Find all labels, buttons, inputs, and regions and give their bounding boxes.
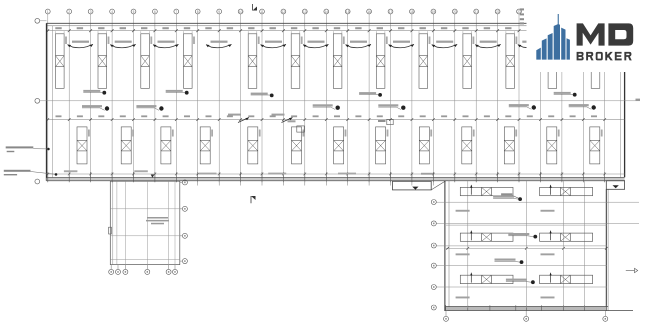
small slope arrows mid band [238,118,249,123]
window V7 [334,127,344,164]
svg-text:2: 2 [68,10,70,14]
right wing step (top-right ramp) [606,181,624,190]
lintel internal grey bar row1 [501,193,512,195]
left bubble B [35,98,40,103]
vent leader at x=489 [475,44,501,47]
right wing bottom wall [446,307,608,310]
vent leader at x=166 [153,44,179,47]
window V10 [462,127,472,164]
dim ticks under wing bottom (x 185..440) [198,181,434,186]
svg-text:23: 23 [517,10,521,14]
lintel row 2 left [460,233,513,241]
vent leader at x=359 [346,44,372,47]
window V6 [292,127,302,164]
window V8 [376,127,386,164]
window W10 [463,34,472,89]
right wing left bubbles [431,200,436,311]
window W3 [141,34,150,89]
logo tower with spire [554,24,560,60]
right wall [624,23,626,177]
lintel row 3 left [460,275,513,283]
vent leader at x=220 [206,44,232,47]
window V11 [504,127,514,164]
left bubble A [35,18,40,184]
extension bottom bubbles [109,265,178,275]
window V13 [590,127,600,164]
svg-text:16: 16 [367,10,371,14]
svg-text:9: 9 [218,10,220,14]
ramp box left of right wing [393,181,432,190]
window W8 [376,34,385,89]
dim stubs above row-1 windows [56,31,515,34]
window V3 [161,127,171,164]
svg-text:6: 6 [154,10,156,14]
window V1 [77,127,87,164]
extension left door box [109,227,112,234]
bottom wall ticks [47,172,607,182]
svg-text:1: 1 [47,10,49,14]
section mark top [252,4,254,11]
left wall [46,23,48,180]
vent leader at x=402 [389,44,415,47]
lintel row 2 right [540,233,593,241]
window W4 [184,34,193,89]
section mark bottom [250,196,252,203]
svg-text:22: 22 [496,10,500,14]
bottom wall of main wing [47,177,625,179]
window V5 [248,127,258,164]
left annotation text 2 [4,170,31,176]
svg-text:19: 19 [432,10,436,14]
vent leader at x=124 [110,44,136,47]
logo white background [527,0,654,72]
window W1 [56,34,65,89]
svg-text:20: 20 [453,10,457,14]
window W9 [419,34,428,89]
logo building bar 6 [567,38,570,59]
svg-text:13: 13 [303,10,307,14]
right side marker [626,270,635,272]
svg-text:4: 4 [111,10,113,14]
top grid bubbles 1..23 [45,9,521,14]
middle dimension line [47,119,625,121]
right wing dim ticks y=248.3 [446,247,607,250]
lintel row 1 right [540,187,593,195]
top dimension line [47,30,625,32]
right wing small labels [456,210,555,299]
logo building bar 5 [561,28,565,60]
horizontal grid line B [40,100,640,102]
svg-text:12: 12 [282,10,286,14]
right wing bottom bubbles [444,311,608,321]
window V2 [121,127,131,164]
window W6 [291,34,300,89]
logo building bar 1 [536,48,541,60]
right wing horizontal grid lines [437,202,640,287]
vent leader at x=445 [432,44,458,47]
left annotation text 1 [6,146,34,152]
window V9 [419,127,429,164]
svg-text:21: 21 [474,10,478,14]
right wing left wall [444,181,446,311]
window W13 [591,34,600,89]
right wing vertical grid lines [468,181,585,308]
window W7 [333,34,342,89]
svg-text:17: 17 [389,10,393,14]
svg-text:11: 11 [260,10,264,14]
small flag above extension [151,175,155,178]
top wall of main wing [47,22,625,24]
svg-text:14: 14 [325,10,329,14]
svg-text:18: 18 [410,10,414,14]
0.00 level box [297,126,304,132]
right wing right wall [605,189,607,311]
svg-text:3: 3 [90,10,92,14]
extension internal grid [110,181,180,264]
tiny level text stack top right [520,8,524,24]
vent leader at x=531 [518,44,544,47]
right wing leader dots [518,197,522,201]
window W2 [98,34,107,89]
leader dots y~93 [102,91,106,95]
logo building bar 2 [542,38,547,59]
window W11 [506,34,515,89]
logo BROKER text [577,52,632,61]
vent leader at x=81 [68,44,94,47]
extension right bubbles [180,180,188,264]
logo building bar 3 [548,33,553,60]
window V4 [200,127,210,164]
window V12 [547,127,557,164]
svg-text:10: 10 [239,10,243,14]
svg-text:7: 7 [175,10,177,14]
left bubble C [35,179,40,184]
svg-text:15: 15 [346,10,350,14]
svg-text:8: 8 [197,10,199,14]
lintel row 3 right [540,275,593,283]
left extension outline [110,181,180,264]
window W5 [248,34,257,89]
extension centre text [146,217,169,224]
window W12 [548,34,557,89]
circled markers y~108 [105,106,109,110]
vent leader at x=274 [261,44,287,47]
logo MD letters [577,23,605,45]
vertical grid lines [48,14,605,181]
vent leader at x=316 [303,44,329,47]
lintel row 1 left [460,187,513,195]
svg-text:5: 5 [133,10,135,14]
top dimension numbers [55,27,597,29]
level label box 2 [387,119,393,124]
